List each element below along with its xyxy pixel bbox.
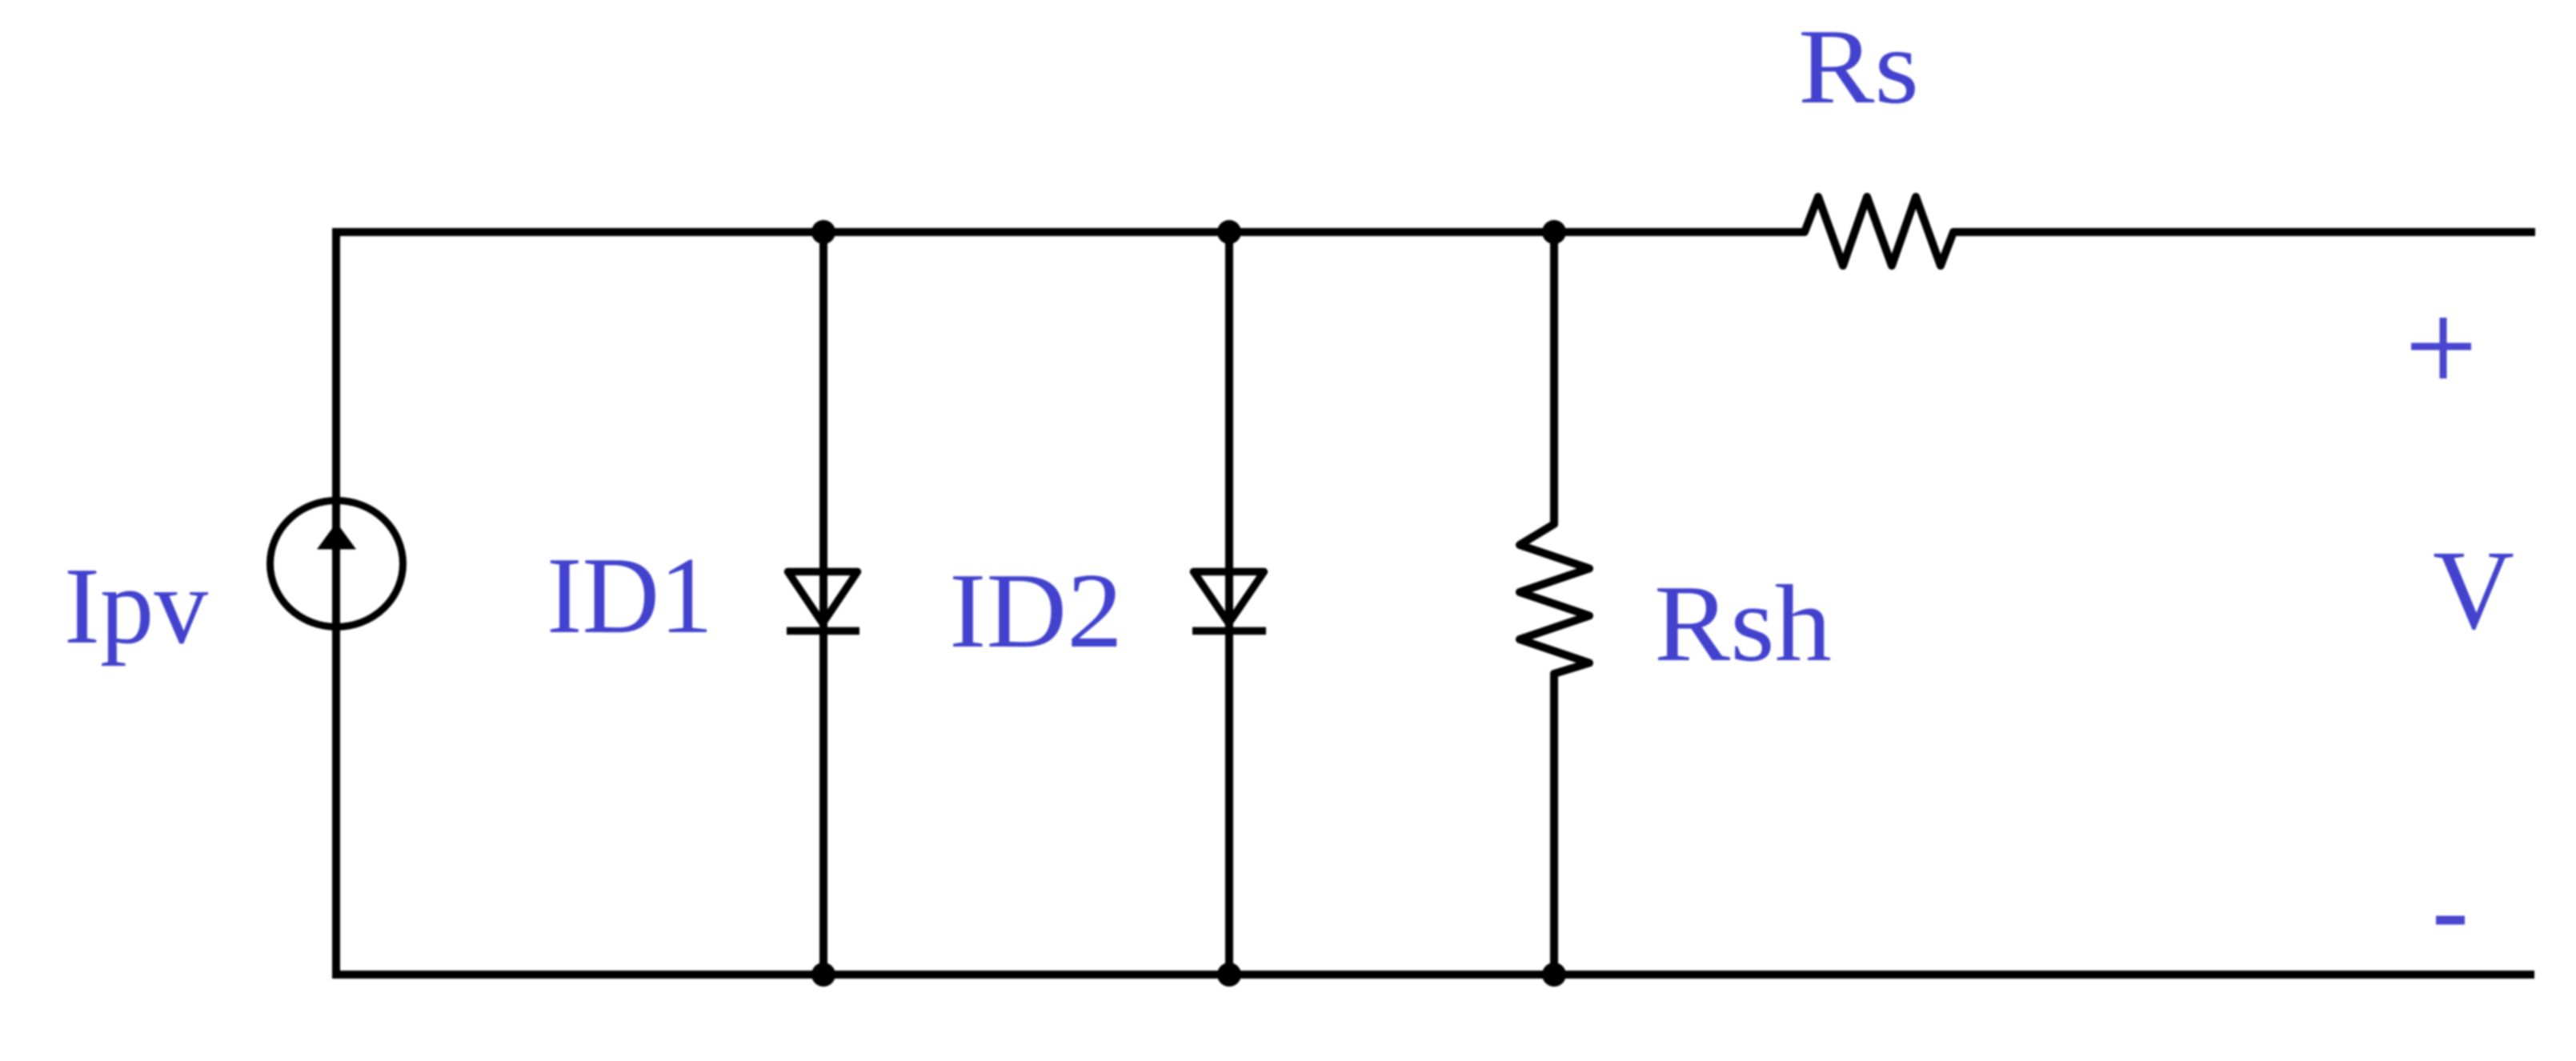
wire bottom rail (332, 971, 2534, 979)
svg-text:Rs: Rs (1798, 7, 1919, 126)
node junction dot D1 top (811, 220, 835, 244)
node junction dot D2 top (1217, 220, 1241, 244)
diode D2 (ID2) triangle (1194, 572, 1264, 624)
svg-text:V: V (2433, 526, 2514, 653)
current source arrow (points up) (317, 522, 356, 550)
diode D1 cathode bar (787, 627, 859, 635)
svg-text:ID2: ID2 (949, 551, 1123, 670)
node junction dot D2 bottom (1217, 963, 1241, 987)
svg-text:Ipv: Ipv (64, 545, 208, 667)
resistor Rsh branch wire with zigzag (1520, 232, 1589, 975)
diode D1 (ID1) triangle (788, 572, 858, 624)
diode D2 branch wire (1225, 232, 1233, 975)
label + (output positive terminal) (2411, 318, 2471, 378)
wire top rail with resistor Rs (node N1 to output +) (332, 197, 2535, 266)
diode D2 cathode bar (1192, 627, 1266, 635)
diode D1 branch wire (819, 232, 827, 975)
wire left branch (through current source) (332, 228, 340, 979)
svg-text:Rsh: Rsh (1654, 563, 1832, 684)
svg-text:ID1: ID1 (547, 535, 713, 656)
node junction dot Rsh bottom (1542, 963, 1566, 987)
current source Ipv (circle) (270, 501, 403, 627)
node junction dot D1 bottom (811, 963, 835, 987)
label - (output negative terminal) (2436, 916, 2465, 925)
node junction dot Rsh top (1542, 220, 1566, 244)
